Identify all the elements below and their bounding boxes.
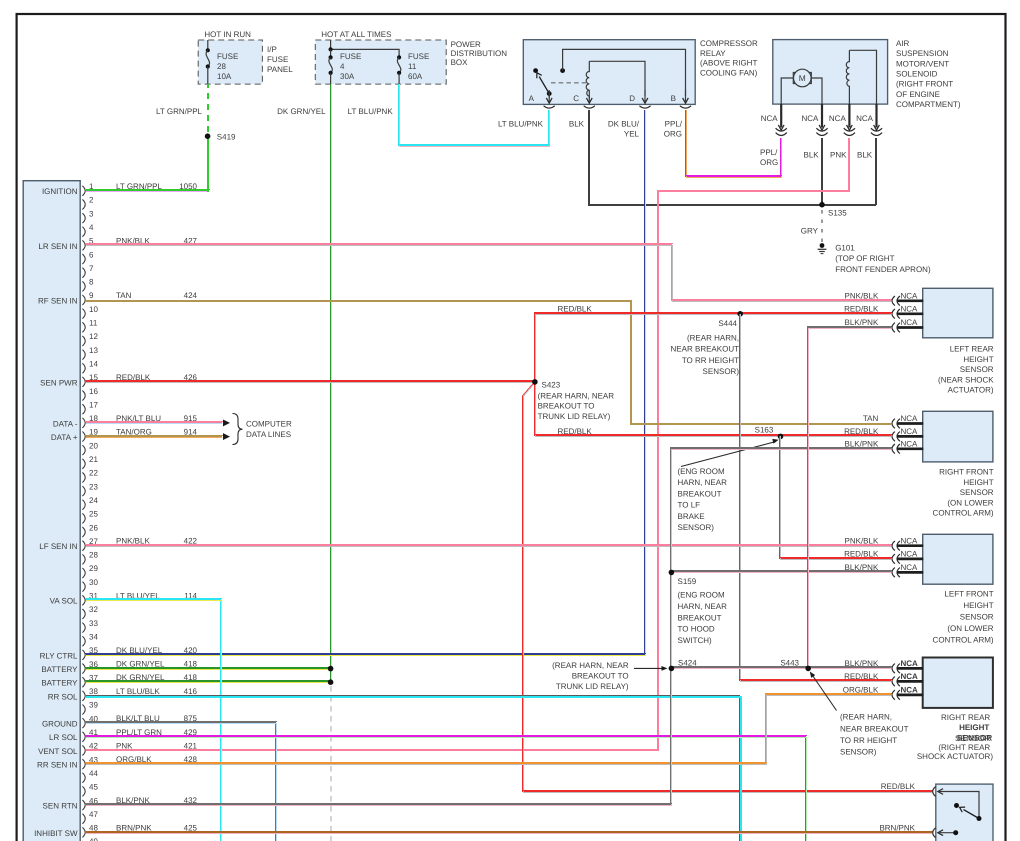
svg-text:DK GRN/YEL: DK GRN/YEL xyxy=(277,107,326,116)
svg-text:NCA: NCA xyxy=(901,292,919,301)
svg-text:TO HOOD: TO HOOD xyxy=(678,625,715,634)
wire BLK/PNK S159 to left front sensor xyxy=(671,570,891,572)
svg-text:3: 3 xyxy=(89,209,94,218)
wire BLK/PNK S424 up through S159 to right front sensor xyxy=(670,448,891,668)
wire PPL/LT GRN 429 pin 41 left rear solenoid xyxy=(86,736,805,841)
svg-text:47: 47 xyxy=(89,810,98,819)
svg-text:30A: 30A xyxy=(340,72,355,81)
ground G101 xyxy=(820,243,825,248)
svg-text:TRUNK LID RELAY): TRUNK LID RELAY) xyxy=(556,682,629,691)
svg-text:BREAKOUT TO: BREAKOUT TO xyxy=(572,672,629,681)
vent solenoid coil xyxy=(846,50,849,104)
pin 1 connector arc xyxy=(82,186,85,196)
left rear sensor NCA terminal xyxy=(898,299,924,302)
svg-text:24: 24 xyxy=(89,496,98,505)
svg-text:A: A xyxy=(529,94,535,103)
left front sensor NCA terminal xyxy=(898,571,924,574)
pin 38 connector arc xyxy=(82,691,85,701)
svg-text:HOT IN RUN: HOT IN RUN xyxy=(204,30,251,39)
svg-text:TO RR HEIGHT: TO RR HEIGHT xyxy=(840,736,897,745)
svg-text:10: 10 xyxy=(89,305,98,314)
svg-text:HEIGHT: HEIGHT xyxy=(963,601,993,610)
svg-text:S419: S419 xyxy=(217,133,236,142)
svg-text:ORG: ORG xyxy=(664,130,682,139)
pin 34 connector arc xyxy=(82,636,85,646)
svg-text:DATA +: DATA + xyxy=(51,433,78,442)
motor brush leads xyxy=(781,78,793,104)
svg-text:HOT AT ALL TIMES: HOT AT ALL TIMES xyxy=(321,30,391,39)
svg-text:RED/BLK: RED/BLK xyxy=(557,427,592,436)
svg-text:LT BLU/PNK: LT BLU/PNK xyxy=(348,107,394,116)
svg-text:S443: S443 xyxy=(780,659,799,668)
pin 10 connector arc xyxy=(82,309,85,319)
pin 42 connector arc xyxy=(82,745,85,755)
svg-text:2: 2 xyxy=(89,196,94,205)
svg-text:FUSE: FUSE xyxy=(267,55,288,64)
left front sensor NCA terminal xyxy=(898,558,924,561)
svg-text:CONTROL ARM): CONTROL ARM) xyxy=(933,509,994,518)
right rear sensor NCA terminal (bold) xyxy=(898,694,924,697)
left front sensor NCA terminal xyxy=(898,544,924,547)
svg-text:49: 49 xyxy=(89,837,98,841)
svg-text:17: 17 xyxy=(89,400,98,409)
pin 41 connector arc xyxy=(82,732,85,742)
svg-text:GRY: GRY xyxy=(801,227,819,236)
pin 8 connector arc xyxy=(82,281,85,291)
svg-text:SUSPENSION: SUSPENSION xyxy=(896,49,949,58)
wire BLK motor terminal 4 to S135 bus xyxy=(875,138,877,205)
fuse F11 (FUSE 11 60A) xyxy=(397,55,401,59)
svg-text:AIR: AIR xyxy=(896,39,910,48)
pin 22 connector arc xyxy=(82,472,85,482)
svg-text:PNK/BLK: PNK/BLK xyxy=(845,536,879,545)
svg-text:RELAY: RELAY xyxy=(700,49,726,58)
svg-text:RED/BLK: RED/BLK xyxy=(844,672,879,681)
svg-text:RED/BLK: RED/BLK xyxy=(557,304,592,313)
svg-text:22: 22 xyxy=(89,469,98,478)
wire RED/BLK S423 diagonal to height switch xyxy=(522,382,932,791)
svg-text:RED/BLK: RED/BLK xyxy=(881,782,916,791)
wire LT GRN/PPL vertical to S419 xyxy=(207,136,209,192)
svg-text:POWER: POWER xyxy=(451,40,481,49)
svg-text:26: 26 xyxy=(89,523,98,532)
fuse F28 (FUSE 28 10A) xyxy=(207,40,209,50)
svg-text:LT BLU/BLK: LT BLU/BLK xyxy=(116,687,160,696)
svg-text:NCA: NCA xyxy=(761,114,779,123)
svg-text:GROUND: GROUND xyxy=(42,720,78,729)
wire BRN/PNK 425 pin 48 to inhibit switch xyxy=(86,831,932,833)
svg-text:NCA: NCA xyxy=(829,114,847,123)
svg-text:LF SEN IN: LF SEN IN xyxy=(39,542,77,551)
svg-text:SENSOR: SENSOR xyxy=(960,613,994,622)
pin 36 connector arc xyxy=(82,664,85,674)
svg-text:MOTOR/VENT: MOTOR/VENT xyxy=(896,59,949,68)
junction dot pin37 wire xyxy=(328,679,334,685)
wire BLK/PNK left rear sensor down to S443 xyxy=(807,327,891,668)
wire LT GRN/PPL dashed S419 to fuse 28 xyxy=(207,84,209,132)
pin 45 connector arc xyxy=(82,786,85,796)
svg-text:DATA LINES: DATA LINES xyxy=(246,430,291,439)
svg-text:CONTROL ARM): CONTROL ARM) xyxy=(933,636,994,645)
pin 13 connector arc xyxy=(82,350,85,360)
svg-text:SENSOR): SENSOR) xyxy=(703,367,740,376)
svg-text:LEFT FRONT: LEFT FRONT xyxy=(944,590,993,599)
svg-text:B: B xyxy=(671,94,676,103)
svg-text:C: C xyxy=(573,94,579,103)
svg-text:16: 16 xyxy=(89,387,98,396)
svg-text:TRUNK LID RELAY): TRUNK LID RELAY) xyxy=(538,412,611,421)
air suspension motor/vent solenoid box U2 xyxy=(773,40,888,105)
wire PNK/BLK 427 pin 5 to left rear height sensor xyxy=(86,244,891,300)
arrow from rear-harn note to S443 xyxy=(812,674,837,711)
wire GRY S135 to ground G101 xyxy=(821,210,823,242)
pin 46 connector arc xyxy=(82,800,85,810)
svg-text:25: 25 xyxy=(89,510,98,519)
pin 33 connector arc xyxy=(82,623,85,633)
pin 2 connector arc xyxy=(82,199,85,209)
svg-text:ORG/BLK: ORG/BLK xyxy=(843,686,879,695)
svg-text:BOX: BOX xyxy=(451,58,469,67)
left rear height sensor box xyxy=(923,288,993,338)
svg-text:(ON LOWER: (ON LOWER xyxy=(947,624,993,633)
svg-text:LR SOL: LR SOL xyxy=(49,733,78,742)
switch internal path from terminal 1 xyxy=(938,789,943,795)
svg-text:ACTUATOR): ACTUATOR) xyxy=(948,386,994,395)
svg-text:28: 28 xyxy=(89,551,98,560)
svg-text:12: 12 xyxy=(89,332,98,341)
compressor relay box xyxy=(523,40,695,105)
wire RED/BLK S444 down to right rear sensor xyxy=(739,314,891,680)
switch terminal 1 connector xyxy=(933,787,936,797)
svg-text:FUSE: FUSE xyxy=(217,52,238,61)
svg-text:COMPARTMENT): COMPARTMENT) xyxy=(896,100,961,109)
pin 23 connector arc xyxy=(82,486,85,496)
svg-text:(RIGHT FRONT: (RIGHT FRONT xyxy=(896,80,953,89)
svg-text:11: 11 xyxy=(89,319,98,328)
svg-text:SENSOR: SENSOR xyxy=(960,488,994,497)
svg-text:424: 424 xyxy=(184,291,198,300)
svg-text:S159: S159 xyxy=(678,577,697,586)
svg-text:39: 39 xyxy=(89,701,98,710)
svg-text:NCA: NCA xyxy=(802,114,820,123)
relay internal wire coil to terminal D xyxy=(589,61,645,96)
svg-text:DATA -: DATA - xyxy=(53,419,78,428)
svg-text:NCA: NCA xyxy=(901,440,919,449)
svg-text:I/P: I/P xyxy=(267,45,277,54)
svg-text:(ENG ROOM: (ENG ROOM xyxy=(678,467,725,476)
splice S419 xyxy=(205,133,211,139)
svg-text:PPL/: PPL/ xyxy=(760,148,778,157)
svg-text:23: 23 xyxy=(89,482,98,491)
svg-text:14: 14 xyxy=(89,359,98,368)
svg-text:45: 45 xyxy=(89,783,98,792)
svg-text:SENSOR: SENSOR xyxy=(960,365,994,374)
wire BLK relay terminal C to S135 xyxy=(589,110,876,205)
svg-text:COMPRESSOR: COMPRESSOR xyxy=(700,39,758,48)
switch terminal 2 connector xyxy=(933,828,936,838)
svg-text:SOLENOID: SOLENOID xyxy=(896,70,938,79)
svg-text:VENT SOL: VENT SOL xyxy=(38,747,78,756)
pin 7 connector arc xyxy=(82,268,85,278)
svg-text:RED/BLK: RED/BLK xyxy=(844,305,879,314)
pin 21 connector arc xyxy=(82,459,85,469)
wire LT BLU/PNK fuse 11 to relay terminal A xyxy=(398,84,548,145)
pin 18 connector arc xyxy=(82,418,85,428)
svg-text:BLK/PNK: BLK/PNK xyxy=(845,659,879,668)
pin 24 connector arc xyxy=(82,500,85,510)
svg-text:SEN RTN: SEN RTN xyxy=(43,801,78,810)
wire PNK motor terminal 3 to pin 42 VENT SOL xyxy=(86,138,849,750)
svg-text:ORG: ORG xyxy=(760,158,778,167)
svg-text:NEAR BREAKOUT: NEAR BREAKOUT xyxy=(840,724,909,733)
pin 20 connector arc xyxy=(82,445,85,455)
power distribution dashed box xyxy=(315,40,446,84)
pin 43 connector arc xyxy=(82,759,85,769)
svg-text:RIGHT REAR: RIGHT REAR xyxy=(941,713,990,722)
wire RED/BLK S163 down to left front sensor xyxy=(779,436,891,558)
pin 39 connector arc xyxy=(82,705,85,715)
svg-text:M: M xyxy=(799,73,806,83)
pin 35 connector arc xyxy=(82,650,85,660)
svg-text:BRN/PNK: BRN/PNK xyxy=(879,823,915,832)
wire DK GRN/YEL pin37 battery xyxy=(86,680,331,682)
splice S135 xyxy=(819,202,825,208)
svg-text:RR SEN IN: RR SEN IN xyxy=(37,761,78,770)
svg-text:44: 44 xyxy=(89,769,98,778)
svg-text:4: 4 xyxy=(340,62,345,71)
svg-text:RED/BLK: RED/BLK xyxy=(844,550,879,559)
switch blade and contacts xyxy=(977,816,982,821)
wire RED/BLK 426 pin 15 to splice S423 xyxy=(86,380,535,382)
pin 6 connector arc xyxy=(82,254,85,264)
svg-text:29: 29 xyxy=(89,564,98,573)
svg-text:21: 21 xyxy=(89,455,98,464)
svg-text:(ON LOWER: (ON LOWER xyxy=(947,498,993,507)
svg-text:BATTERY: BATTERY xyxy=(41,679,78,688)
svg-text:9: 9 xyxy=(89,291,94,300)
svg-text:NCA: NCA xyxy=(901,305,919,314)
svg-text:DISTRIBUTION: DISTRIBUTION xyxy=(451,49,508,58)
svg-text:FUSE: FUSE xyxy=(340,52,361,61)
pin 25 connector arc xyxy=(82,513,85,523)
left front height sensor box xyxy=(923,534,993,584)
svg-text:8: 8 xyxy=(89,278,94,287)
svg-text:BREAKOUT: BREAKOUT xyxy=(678,613,722,622)
svg-text:13: 13 xyxy=(89,346,98,355)
svg-text:NCA: NCA xyxy=(901,536,919,545)
wire PNK/LT BLU 915 pin 18 data minus xyxy=(86,421,222,423)
svg-text:SWITCH): SWITCH) xyxy=(678,636,713,645)
svg-text:NEAR BREAKOUT: NEAR BREAKOUT xyxy=(671,345,740,354)
svg-text:32: 32 xyxy=(89,605,98,614)
svg-text:11: 11 xyxy=(408,62,417,71)
arrow from ENG ROOM note to S163 xyxy=(681,442,776,467)
svg-text:FUSE: FUSE xyxy=(408,52,429,61)
svg-text:NCA: NCA xyxy=(901,686,919,695)
svg-text:4: 4 xyxy=(89,223,94,232)
wire DK GRN/YEL fuse 4 down to battery splices xyxy=(329,84,331,682)
svg-text:RF SEN IN: RF SEN IN xyxy=(38,296,78,305)
svg-text:LEFT REAR: LEFT REAR xyxy=(950,345,994,354)
svg-text:BLK/PNK: BLK/PNK xyxy=(845,563,879,572)
svg-text:BREAKOUT TO: BREAKOUT TO xyxy=(538,402,595,411)
svg-text:28: 28 xyxy=(217,62,226,71)
pin 11 connector arc xyxy=(82,322,85,332)
svg-text:38: 38 xyxy=(89,687,98,696)
svg-text:6: 6 xyxy=(89,250,94,259)
svg-text:INHIBIT SW: INHIBIT SW xyxy=(34,829,78,838)
svg-text:BLK: BLK xyxy=(857,151,873,160)
svg-text:PANEL: PANEL xyxy=(267,65,293,74)
wire RED/BLK S423 down to S163 and right front sensor xyxy=(534,382,891,435)
svg-text:BLK/PNK: BLK/PNK xyxy=(845,440,879,449)
pin 40 connector arc xyxy=(82,718,85,728)
left rear sensor NCA terminal xyxy=(898,312,924,315)
svg-text:BLK: BLK xyxy=(804,151,820,160)
arrow from trunk-lid note to S424 xyxy=(634,667,664,669)
svg-text:TO RR HEIGHT: TO RR HEIGHT xyxy=(682,356,739,365)
splice S424 xyxy=(669,666,675,672)
pin 19 connector arc xyxy=(82,432,85,442)
svg-text:20: 20 xyxy=(89,441,98,450)
wire LT BLU/YEL 114 pin 31 vent air solenoid xyxy=(86,599,220,841)
svg-text:HARN, NEAR: HARN, NEAR xyxy=(678,602,728,611)
pin 30 connector arc xyxy=(82,582,85,592)
svg-text:OF ENGINE: OF ENGINE xyxy=(896,90,940,99)
svg-text:NCA: NCA xyxy=(901,318,919,327)
svg-text:HEIGHT: HEIGHT xyxy=(963,355,993,364)
svg-text:FRONT FENDER APRON): FRONT FENDER APRON) xyxy=(835,265,931,274)
svg-text:(RIGHT REAR: (RIGHT REAR xyxy=(938,743,990,752)
wire DK BLU/YEL relay terminal D to pin 35 xyxy=(86,110,644,654)
svg-text:(NEAR SHOCK: (NEAR SHOCK xyxy=(938,375,994,384)
svg-text:TAN: TAN xyxy=(116,291,132,300)
pin 29 connector arc xyxy=(82,568,85,578)
wire BLK motor terminal 2 to S135 xyxy=(821,138,823,205)
svg-text:COMPUTER: COMPUTER xyxy=(246,419,292,428)
wire TAN 424 pin 9 to right front height sensor xyxy=(86,301,891,424)
bus wire between fuse 4 and fuse 11 xyxy=(331,40,400,57)
svg-text:HEIGHT: HEIGHT xyxy=(959,723,989,732)
relay terminal connector arcs xyxy=(544,106,555,108)
wire BLK/PNK 432 pin 46 sensor return to S424 xyxy=(86,668,670,804)
pin 37 connector arc xyxy=(82,677,85,687)
svg-text:BLK/PNK: BLK/PNK xyxy=(845,318,879,327)
splice S443 xyxy=(805,666,811,672)
pin 28 connector arc xyxy=(82,554,85,564)
switch internal contact from terminal 2 xyxy=(938,830,943,836)
svg-text:RIGHT FRONT: RIGHT FRONT xyxy=(939,468,994,477)
solenoid wire to fourth terminal xyxy=(849,50,876,104)
wire ORG/BLK 428 pin 43 to right rear height sensor xyxy=(86,694,891,763)
height/inhibit switch box xyxy=(936,784,993,841)
svg-text:416: 416 xyxy=(184,687,198,696)
svg-text:SENSOR): SENSOR) xyxy=(840,748,877,757)
svg-text:S444: S444 xyxy=(718,319,737,328)
junction dot pin36 wire xyxy=(328,666,334,672)
wire RED/BLK S423 up to sensor feed bus xyxy=(534,313,891,382)
svg-text:(ENG ROOM: (ENG ROOM xyxy=(678,591,725,600)
pin 44 connector arc xyxy=(82,773,85,783)
svg-text:PNK/BLK: PNK/BLK xyxy=(845,292,879,301)
svg-text:(REAR HARN, NEAR: (REAR HARN, NEAR xyxy=(538,391,615,400)
svg-text:10A: 10A xyxy=(217,72,232,81)
relay terminal A lead xyxy=(548,94,550,98)
right front sensor NCA terminal xyxy=(898,435,924,438)
right front sensor NCA terminal xyxy=(898,447,924,450)
svg-text:NCA: NCA xyxy=(901,427,919,436)
svg-text:LR SEN IN: LR SEN IN xyxy=(38,242,77,251)
svg-text:LT GRN/PPL: LT GRN/PPL xyxy=(156,107,202,116)
svg-text:TO LF: TO LF xyxy=(678,501,701,510)
svg-text:LT BLU/PNK: LT BLU/PNK xyxy=(498,120,544,129)
wire LT GRN/PPL 1050 pin1 horizontal xyxy=(86,189,209,191)
svg-text:33: 33 xyxy=(89,619,98,628)
svg-text:DK BLU/: DK BLU/ xyxy=(608,120,640,129)
wire TAN/ORG 914 pin 19 data plus xyxy=(86,435,222,437)
right rear sensor NCA terminal (bold) xyxy=(898,680,924,683)
dashed continuation below battery splice xyxy=(330,686,332,841)
pin 3 connector arc xyxy=(82,213,85,223)
svg-text:S135: S135 xyxy=(828,209,847,218)
svg-text:BATTERY: BATTERY xyxy=(41,665,78,674)
splice S423 xyxy=(532,379,538,385)
pin 26 connector arc xyxy=(82,527,85,537)
svg-text:G101: G101 xyxy=(835,243,855,252)
svg-text:SHOCK ACTUATOR): SHOCK ACTUATOR) xyxy=(917,752,993,761)
svg-text:RED/BLK: RED/BLK xyxy=(844,427,879,436)
wire LT BLU/BLK 416 pin 38 rear solenoid xyxy=(86,695,739,841)
svg-text:(ABOVE RIGHT: (ABOVE RIGHT xyxy=(700,59,757,68)
svg-text:S423: S423 xyxy=(542,381,561,390)
pin 9 connector arc xyxy=(82,295,85,305)
relay coil actuation dashed link xyxy=(551,82,586,84)
svg-text:(TOP OF RIGHT: (TOP OF RIGHT xyxy=(835,254,894,263)
svg-text:HARN, NEAR: HARN, NEAR xyxy=(678,478,728,487)
svg-text:YEL: YEL xyxy=(624,130,640,139)
svg-text:HEIGHT: HEIGHT xyxy=(963,478,993,487)
svg-text:BLK: BLK xyxy=(569,120,585,129)
svg-text:BREAKOUT: BREAKOUT xyxy=(678,489,722,498)
wire PNK/BLK 422 pin 27 to left front height sensor xyxy=(86,544,891,546)
svg-text:PPL/: PPL/ xyxy=(665,120,683,129)
svg-text:(REAR HARN, NEAR: (REAR HARN, NEAR xyxy=(552,661,629,670)
svg-text:(REAR HARN,: (REAR HARN, xyxy=(687,334,739,343)
I/P fuse panel dashed box xyxy=(198,40,262,84)
svg-text:NCA: NCA xyxy=(901,672,919,681)
pin 31 connector arc xyxy=(82,595,85,605)
svg-text:NCA: NCA xyxy=(901,414,919,423)
svg-text:RR SOL: RR SOL xyxy=(48,692,78,701)
svg-text:IGNITION: IGNITION xyxy=(42,187,78,196)
pin 14 connector arc xyxy=(82,363,85,373)
pin 16 connector arc xyxy=(82,391,85,401)
svg-text:34: 34 xyxy=(89,632,98,641)
wire PPL/ORG relay terminal B to motor terminal 1 xyxy=(685,110,780,176)
wire DK GRN/YEL pin36 battery xyxy=(86,667,331,669)
left rear sensor NCA terminal xyxy=(898,326,924,329)
wire BLK/LT BLU 875 pin 40 ground xyxy=(86,722,275,841)
splice S159 xyxy=(669,570,675,576)
computer data lines brace xyxy=(233,414,243,445)
svg-text:RLY CTRL: RLY CTRL xyxy=(40,651,78,660)
svg-text:PNK: PNK xyxy=(830,151,847,160)
right rear sensor NCA terminal (bold) xyxy=(898,667,924,670)
svg-text:30: 30 xyxy=(89,578,98,587)
svg-text:COOLING FAN): COOLING FAN) xyxy=(700,69,758,78)
right rear height sensor box xyxy=(923,658,993,708)
splice S444 xyxy=(737,311,743,317)
